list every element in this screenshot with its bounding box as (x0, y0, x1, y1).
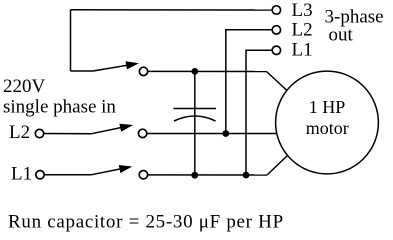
svg-text:220V: 220V (3, 76, 46, 97)
node junction row3 / L1 out riser (243, 172, 250, 179)
svg-text:L2: L2 (9, 122, 30, 143)
svg-text:single phase in: single phase in (3, 96, 116, 117)
svg-text:L1: L1 (292, 40, 313, 61)
wire switch S1 pole lead (71, 70, 94, 72)
wire motor top lead diagonal (267, 72, 288, 91)
svg-text:L2: L2 (292, 20, 313, 41)
node junction row1 / capacitor top (191, 68, 198, 75)
switch S1 blade (93, 64, 136, 71)
switch S2 contact (open circle) (138, 129, 146, 137)
switch S2 blade (91, 126, 130, 134)
svg-text:motor: motor (306, 118, 349, 138)
terminal L1 out (open circle) (272, 46, 280, 54)
terminal L3 out (open circle) (272, 6, 280, 14)
switch S3 arrowhead (119, 165, 133, 173)
wire L1 out riser (246, 50, 272, 175)
wire L2 out riser (226, 30, 272, 134)
node junction row3 / capacitor bottom (191, 172, 198, 179)
wire row1: switch S1 contact to motor lead bend (148, 70, 267, 72)
node junction row2 / L2 out riser (222, 130, 229, 137)
motor M1 body (1 HP) (276, 71, 379, 174)
capacitor C1 top plate (174, 108, 217, 110)
switch S2 arrowhead (119, 124, 133, 132)
wire motor bottom lead diagonal (267, 156, 288, 176)
switch S3 contact (open circle) (139, 171, 147, 179)
svg-text:L3: L3 (292, 0, 313, 21)
terminal L2 out (open circle) (272, 26, 280, 34)
switch S1 contact (open circle) (139, 67, 147, 75)
svg-text:L1: L1 (11, 164, 32, 185)
svg-text:1 HP: 1 HP (309, 97, 346, 117)
wire switch S3 pole lead (44, 174, 91, 176)
wire L3 feed: top horizontal from loop to L3 out terminal (71, 9, 272, 11)
wire L3 feed: left vertical drop of loop (70, 10, 72, 71)
wire capacitor branch vertical (194, 71, 196, 175)
wire switch S2 pole lead (44, 133, 91, 135)
wire row3: switch S3 contact to motor lead bend (148, 174, 267, 176)
capacitor C1 curved bottom plate (174, 116, 216, 121)
terminal L1 input (open circle) (36, 171, 44, 179)
svg-text:out: out (329, 25, 354, 46)
terminal L2 input (open circle) (35, 129, 43, 137)
wire row2: switch S2 contact to motor (147, 133, 277, 135)
switch S1 arrowhead (126, 61, 140, 69)
svg-text:Run capacitor = 25-30 μF per H: Run capacitor = 25-30 μF per HP (8, 212, 284, 233)
switch S3 blade (91, 167, 129, 175)
